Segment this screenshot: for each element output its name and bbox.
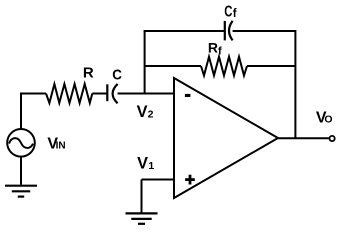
svg-text:2: 2: [148, 108, 154, 120]
svg-text:1: 1: [148, 160, 154, 172]
svg-text:R: R: [83, 64, 94, 81]
svg-text:C: C: [224, 4, 233, 21]
svg-text:V: V: [137, 155, 148, 173]
svg-text:V: V: [137, 103, 148, 121]
svg-text:f: f: [233, 8, 237, 20]
svg-text:IN: IN: [56, 141, 66, 152]
svg-text:O: O: [324, 114, 332, 126]
svg-text:C: C: [112, 66, 122, 83]
svg-text:R: R: [208, 40, 218, 56]
svg-text:f: f: [218, 46, 222, 58]
